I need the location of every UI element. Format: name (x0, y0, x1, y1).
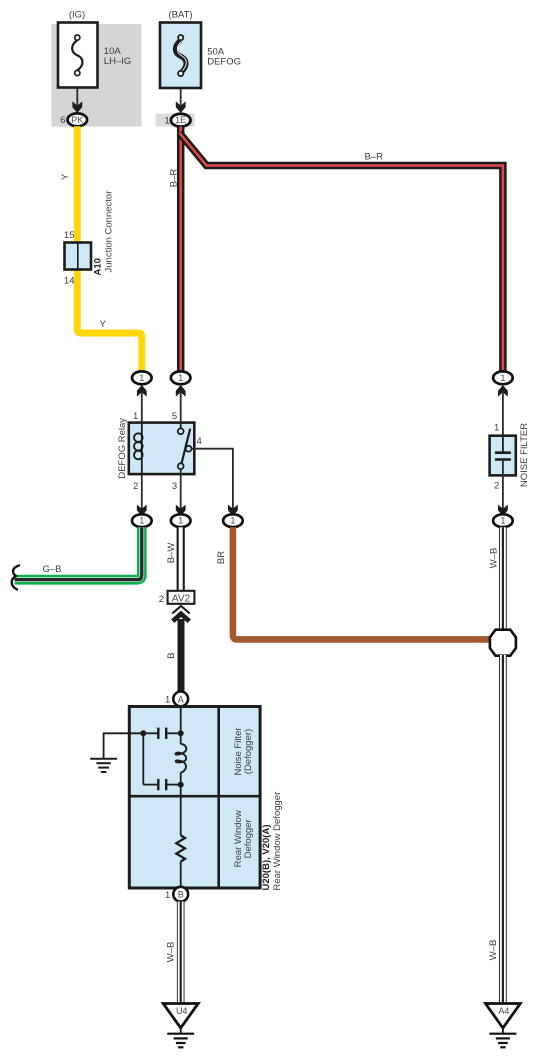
svg-text:1: 1 (494, 422, 499, 433)
wire BR brown from connector to octagon splice (233, 527, 491, 639)
node dot top right (178, 730, 184, 736)
wire W-B left from B to ground (177, 902, 185, 1004)
svg-text:1: 1 (139, 373, 144, 383)
svg-text:5: 5 (172, 411, 177, 422)
wire B-R main vertical from 1E to relay connector (177, 126, 185, 371)
octagon splice (490, 630, 516, 656)
wire to ground from node (104, 733, 144, 758)
capacitor inside noise filter (502, 436, 504, 453)
svg-text:(IG): (IG) (69, 10, 85, 21)
connector 1 below relay pin 3 (171, 514, 191, 527)
arrow up into connector (noise filter top) (498, 385, 508, 397)
relay coil (141, 423, 143, 474)
IG gray panel (52, 24, 142, 127)
wire relay pin 5 up (180, 391, 182, 424)
connector 1E pin 1 (171, 114, 191, 127)
fuse F2 element (175, 40, 186, 73)
connector 1 above relay pin 5 (171, 371, 191, 384)
wire relay pin 2 down (141, 474, 143, 511)
node A circle (173, 692, 188, 707)
svg-text:1: 1 (139, 516, 144, 526)
shield chevron below AV2 (172, 606, 189, 613)
connector 1 below relay pin 2 (132, 514, 152, 527)
arrow down into connector (below noise filter) (498, 505, 508, 517)
ground A4 bars (502, 1028, 504, 1034)
wire fuse F1 to PK (76, 88, 78, 107)
wire fuse F2 to 1E (180, 89, 182, 107)
svg-text:1: 1 (230, 516, 235, 526)
svg-text:1: 1 (500, 373, 505, 383)
svg-text:15: 15 (64, 230, 75, 241)
svg-text:1: 1 (133, 411, 138, 422)
wire B thick black to A (178, 619, 185, 692)
svg-text:1E: 1E (175, 115, 186, 125)
capacitor C2 bottom (143, 784, 158, 786)
wire relay pin 1 up (141, 391, 143, 424)
connector 1 below noise filter (493, 514, 513, 527)
svg-text:B: B (166, 653, 177, 659)
svg-text:4: 4 (197, 436, 202, 447)
svg-text:B: B (178, 890, 184, 900)
wire noise filter pin 1 (502, 391, 504, 437)
vertical divider (217, 707, 220, 889)
svg-text:W–B: W–B (488, 548, 499, 569)
wire from A into box (180, 707, 182, 734)
node B circle (173, 887, 188, 902)
relay switch arm (182, 429, 191, 464)
relay switch contact pin 4 (186, 446, 192, 452)
NOISE FILTER box (490, 436, 516, 476)
svg-text:1: 1 (165, 116, 170, 127)
inductor L1 (180, 733, 182, 744)
svg-text:U4: U4 (176, 1006, 188, 1016)
wire through divider to resistor (180, 785, 182, 836)
arrow up into connector (176, 385, 186, 397)
node dot top left (140, 730, 146, 736)
svg-text:A4: A4 (498, 1006, 509, 1016)
svg-text:1: 1 (178, 373, 183, 383)
wire relay pin 4 to connector (192, 449, 233, 511)
svg-text:W–B: W–B (488, 940, 499, 961)
svg-text:Junction Connector: Junction Connector (104, 191, 115, 273)
connector PK pin 6 (68, 113, 88, 126)
wire resistor to B (180, 862, 182, 888)
svg-text:LH–IG: LH–IG (104, 56, 131, 67)
DEFOG relay box (129, 423, 195, 475)
svg-text:2: 2 (159, 594, 164, 605)
fuse F2 box 50A DEFOG (160, 23, 201, 89)
ground U4 triangle (163, 1004, 198, 1029)
relay switch contact top (178, 428, 184, 434)
wire B-W from connector to AV2 (177, 527, 185, 590)
svg-text:(Defogger): (Defogger) (243, 729, 254, 774)
wire G-B from connector to left (15, 527, 142, 580)
svg-text:W–B: W–B (166, 942, 177, 963)
svg-text:(BAT): (BAT) (168, 10, 192, 21)
arrow down into connector below pin 4 (228, 505, 238, 517)
svg-text:3: 3 (172, 481, 177, 492)
svg-text:14: 14 (64, 276, 75, 287)
chassis ground (90, 758, 117, 760)
arrow up into connector (137, 385, 147, 397)
arrow into PK (72, 101, 82, 113)
svg-text:BR: BR (216, 551, 227, 564)
gray strip behind 1E connector (156, 114, 195, 127)
rear window defogger box (129, 707, 260, 889)
solid arrow chevron (173, 614, 190, 621)
fuse F1 box 10A LH-IG (58, 23, 98, 88)
connector AV2 pin 2 (168, 591, 195, 604)
svg-text:A: A (178, 694, 184, 704)
connector 1 below relay pin 4 (223, 514, 243, 527)
horizontal divider (129, 795, 260, 798)
svg-text:1: 1 (178, 516, 183, 526)
wire W-B right lower segment (499, 655, 507, 1004)
relay switch wire from pin 5 (180, 423, 182, 429)
svg-text:2: 2 (133, 481, 138, 492)
relay switch contact bottom (178, 463, 184, 469)
connector 1 above relay pin 1 (132, 371, 152, 384)
fuse F1 element (72, 40, 82, 70)
svg-text:2: 2 (494, 481, 499, 492)
svg-text:1: 1 (165, 695, 170, 706)
svg-text:U20(B), V20(A): U20(B), V20(A) (261, 825, 272, 891)
ground A4 triangle (486, 1004, 521, 1029)
wire W-B right upper segment (499, 527, 507, 630)
svg-text:1: 1 (500, 516, 505, 526)
connector 1 above noise filter (493, 371, 513, 384)
svg-text:NOISE FILTER: NOISE FILTER (519, 423, 530, 487)
arrow into 1E (176, 101, 186, 113)
wire Y from PK to junction connector and relay connector (77, 126, 142, 372)
wire B-R branch to noise filter column (180, 133, 503, 372)
svg-text:Y: Y (60, 173, 71, 180)
svg-text:B–R: B–R (364, 152, 383, 163)
svg-text:6: 6 (60, 115, 65, 126)
svg-text:Rear Window Defogger: Rear Window Defogger (272, 792, 283, 891)
left branch wire (142, 733, 144, 784)
wire end squiggle (12, 566, 19, 590)
svg-text:B–W: B–W (166, 543, 177, 564)
svg-text:1: 1 (165, 890, 170, 901)
svg-text:A10: A10 (93, 258, 104, 275)
svg-text:DEFOG: DEFOG (207, 56, 241, 67)
arrow down into connector below pin 2 (137, 505, 147, 517)
wire relay pin 3 down (180, 469, 182, 511)
junction connector A10 (65, 243, 92, 270)
svg-text:G–B: G–B (42, 564, 61, 575)
svg-text:B–R: B–R (168, 169, 179, 188)
svg-text:PK: PK (71, 115, 84, 125)
arrow down into connector below pin 3 (176, 505, 186, 517)
svg-text:AV2: AV2 (172, 593, 191, 604)
node dot bottom right (178, 782, 184, 788)
ground U4 bars (180, 1028, 182, 1034)
resistor R1 defogger grid (176, 835, 185, 861)
svg-text:Y: Y (100, 319, 107, 330)
capacitor C1 top (143, 732, 158, 734)
svg-text:Defogger: Defogger (243, 819, 254, 858)
svg-text:DEFOG Relay: DEFOG Relay (117, 418, 128, 479)
